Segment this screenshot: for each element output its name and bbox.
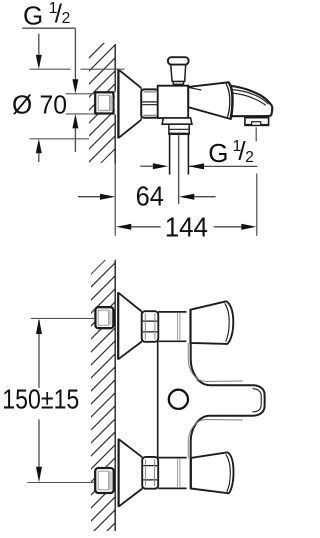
body bar left edge (bottom view) [157,341,159,457]
spout (top view) [229,86,272,116]
escutcheon cone (top view) [118,69,141,138]
upper valve bonnet (bottom view) [158,312,186,341]
wall face extension line (64/144 dims) [114,164,116,236]
svg-text:150±15: 150±15 [2,384,79,415]
label G 1/2 (bottom of top view) [208,136,254,168]
pipe centerline [178,134,180,204]
dimension 144 [116,224,132,230]
upper escutcheon cone (bottom view) [118,292,142,359]
upper hex nut (bottom view) [142,311,159,342]
lower hex nut (bottom view) [142,457,158,489]
arrow down at union top [72,79,78,93]
leader underline for G 1/2 bottom [189,165,257,167]
svg-text:G: G [208,138,228,168]
union extension lines [66,94,95,114]
Ø70 dimension arrows [38,34,40,55]
dimension 150±15 [38,320,40,388]
svg-text:70: 70 [40,90,68,120]
shower outlet pipe (top view) [170,134,189,175]
wall face line (top view) [114,44,116,164]
Ø70 extension lines [30,68,125,70]
diverter knob (top view) [168,57,189,84]
lower escutcheon cone (bottom view) [119,439,143,507]
svg-text:2: 2 [62,10,71,27]
upper union block (bottom view) [95,307,113,328]
label G 1/2 (top left) [23,0,70,30]
upper handle (bottom view) [191,301,234,344]
shower outlet collar (top view) [168,124,189,134]
lever handle (top view) [188,82,232,119]
concealed union block (top view) [95,92,113,113]
wall hatching (top view) [0,40,237,166]
pipe left arrow [140,165,152,167]
svg-text:G: G [23,0,43,30]
lower union block (bottom view) [95,468,114,493]
arrow up at union bottom [72,114,78,128]
aerator (top view) [245,118,269,126]
wall face line (bottom view) [114,260,116,531]
hex connection nut (top view) [141,89,158,117]
extension line to lower union [27,482,95,484]
lower valve bonnet (bottom view) [158,458,186,489]
wall hatching (bottom view) [0,257,320,534]
dimension 64 [78,196,100,198]
body (top view) [158,86,189,118]
diverter knob from above (circle) [169,390,188,409]
svg-text:64: 64 [136,180,164,211]
lower handle (bottom view) [191,452,234,493]
svg-text:Ø: Ø [12,90,32,120]
spout inner highlight lines (bottom view) [188,343,243,382]
aerator centerline extension [255,127,258,236]
leader for G 1/2 top [22,28,75,79]
svg-text:144: 144 [165,211,208,242]
extension line to upper union [31,317,95,319]
body bar + spout outline (bottom view) [191,343,265,458]
svg-text:2: 2 [245,149,254,166]
outlet flange (top view) [162,118,192,124]
